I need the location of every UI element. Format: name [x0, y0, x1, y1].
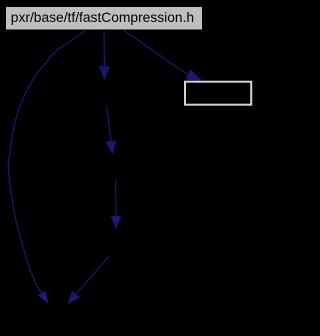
wire edge: top box to node A (middle vertical arrow) — [99, 31, 110, 80]
wire edge: node C to bottom node (diagonal) — [68, 256, 109, 304]
node pxr/base/tf/fastCompression.h — [6, 7, 203, 31]
wire edge: top box to empty right box — [124, 31, 202, 81]
wire edge: node B to node C — [111, 180, 121, 230]
node empty box (right) — [185, 82, 251, 105]
svg-text:pxr/base/tf/fastCompression.h: pxr/base/tf/fastCompression.h — [11, 10, 194, 25]
wire edge: top box to bottom node (long left curve) — [8, 31, 85, 304]
wire edge: node A to node B — [105, 106, 116, 155]
